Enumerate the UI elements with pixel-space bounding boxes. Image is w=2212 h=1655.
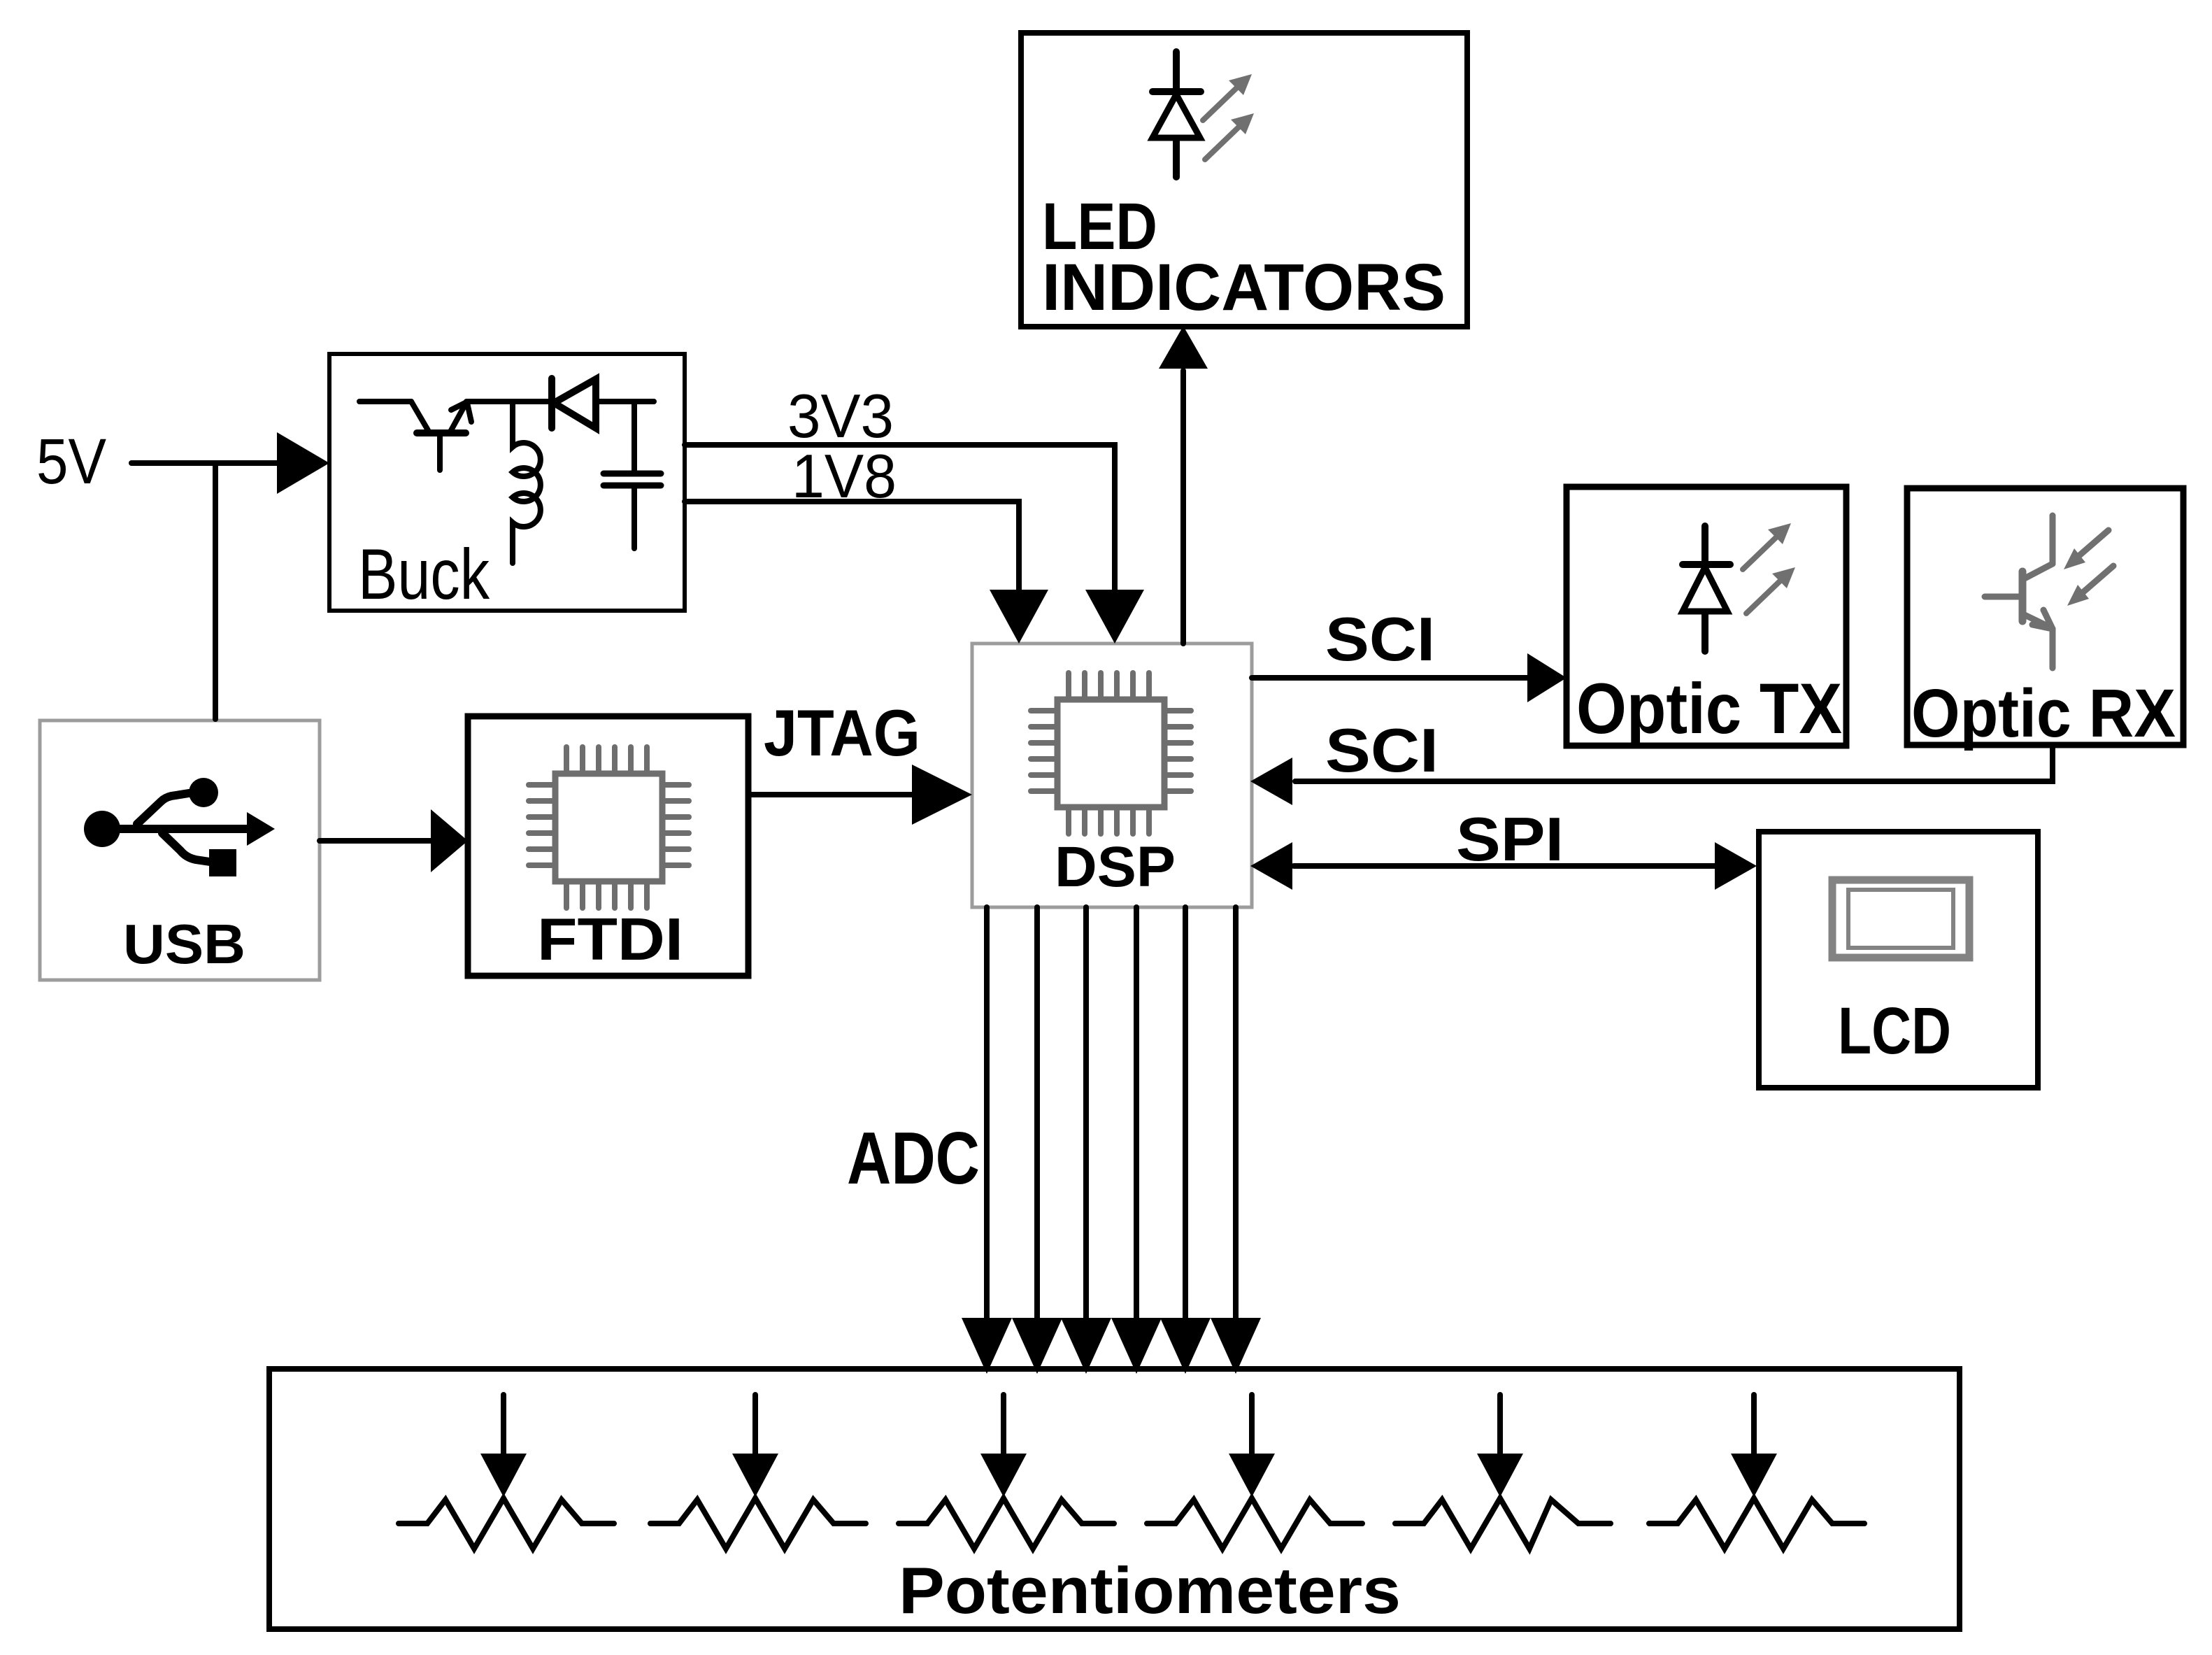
svg-text:USB: USB [123,913,245,975]
svg-text:SCI: SCI [1325,604,1435,674]
svg-text:1V8: 1V8 [792,441,897,511]
svg-text:JTAG: JTAG [764,696,920,769]
svg-text:SCI: SCI [1325,716,1439,785]
svg-text:Buck: Buck [358,534,490,614]
svg-text:SPI: SPI [1456,804,1564,874]
svg-text:3V3: 3V3 [787,381,894,450]
svg-text:INDICATORS: INDICATORS [1042,250,1446,325]
svg-text:ADC: ADC [847,1117,980,1200]
svg-text:Potentiometers: Potentiometers [899,1554,1401,1627]
svg-text:FTDI: FTDI [537,907,683,973]
svg-text:DSP: DSP [1055,835,1176,899]
svg-text:Optic RX: Optic RX [1911,675,2176,751]
svg-text:LCD: LCD [1838,994,1951,1068]
svg-text:Optic TX: Optic TX [1576,669,1842,748]
svg-text:5V: 5V [36,426,106,497]
